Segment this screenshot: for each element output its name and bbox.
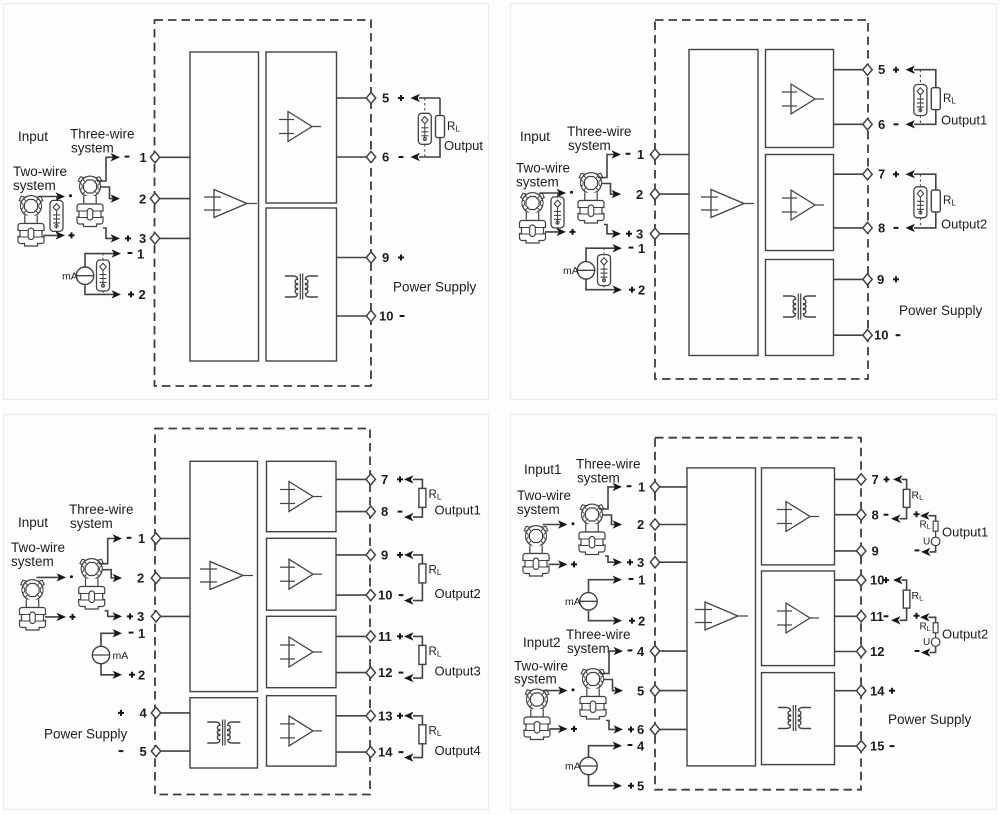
arrow 3w row1 Q3 bbox=[113, 534, 123, 542]
arrow 3w row3 Q3 bbox=[113, 612, 123, 620]
svg-text:Output1: Output1 bbox=[942, 525, 988, 540]
wire terminal3 Q4 bbox=[655, 561, 687, 563]
plus terminal 5 Q2 bbox=[893, 67, 899, 73]
arrow 3w row4 Q4b bbox=[614, 647, 624, 655]
svg-text:8: 8 bbox=[878, 220, 885, 235]
wire mA bottom Q2 bbox=[586, 279, 617, 290]
plus two-wire Q3 bbox=[70, 614, 76, 620]
small resistor RL2b Q4 bbox=[933, 623, 938, 633]
wire terminal3 to input block bbox=[155, 237, 190, 239]
wire mA bottom bbox=[85, 284, 116, 294]
plus mark U branch Q4 o1 bbox=[914, 511, 920, 517]
wire terminal2 Q4 bbox=[655, 524, 687, 526]
svg-text:9: 9 bbox=[877, 272, 884, 287]
svg-text:mA: mA bbox=[565, 761, 581, 773]
input amplifier block Q4 bbox=[687, 468, 756, 766]
two-wire transmitter Q4a bbox=[523, 526, 549, 576]
svg-text:system: system bbox=[71, 141, 114, 156]
arrow 3w row1 Q2 bbox=[612, 150, 622, 158]
load resistor RL2 Q3 bbox=[419, 564, 426, 583]
input amplifier block Q2 bbox=[689, 50, 758, 356]
wire terminal11 Q4 bbox=[835, 615, 862, 617]
terminal 1 Q4 bbox=[650, 481, 659, 492]
indicator out2 Q2 bbox=[914, 187, 927, 218]
two-wire transmitter Q4b bbox=[524, 689, 550, 739]
svg-text:4: 4 bbox=[140, 706, 148, 721]
terminal 4 Q4 bbox=[650, 646, 659, 657]
arrow 3w row2 Q3 bbox=[113, 574, 123, 582]
two-wire transmitter Q2 bbox=[520, 193, 546, 243]
wire load2 bottom Q2 bbox=[914, 212, 936, 228]
svg-text:RL: RL bbox=[429, 725, 442, 738]
svg-text:3: 3 bbox=[636, 227, 643, 242]
svg-text:4: 4 bbox=[637, 644, 645, 659]
two-wire transmitter Q3 bbox=[20, 580, 46, 630]
wire 2w plus Q4a bbox=[549, 563, 564, 565]
arrow out1 plus Q2 bbox=[906, 66, 916, 74]
power transformer block Q4 bbox=[762, 673, 835, 765]
op-amp main Q4 bbox=[695, 602, 748, 630]
svg-text:Output2: Output2 bbox=[942, 626, 988, 641]
load resistor RL3 Q3 bbox=[419, 645, 426, 664]
arrow out1 minus Q2 bbox=[906, 120, 916, 128]
svg-text:RL: RL bbox=[429, 646, 442, 659]
plus mark terminal 9 bbox=[398, 255, 404, 261]
arrow mA plus Q2 bbox=[613, 286, 623, 294]
three-wire transmitter TX2 bbox=[77, 176, 103, 226]
svg-text:RL: RL bbox=[429, 489, 442, 502]
U voltage meter Q4 o2 bbox=[931, 638, 940, 647]
svg-text:Two-wire: Two-wire bbox=[517, 488, 571, 503]
wire terminal9 Q2 bbox=[834, 278, 868, 280]
minus mA Q4b bbox=[628, 744, 633, 746]
wire mA top Q4a bbox=[589, 580, 618, 593]
transformer T1 Q4 bbox=[778, 705, 811, 731]
wire load4 bottom Q3 bbox=[413, 744, 422, 758]
wire big load bottom Q4 o1 bbox=[900, 507, 907, 518]
arrow mA minus Q4b bbox=[613, 742, 623, 750]
svg-text:U: U bbox=[923, 637, 930, 648]
power transformer block Q2 bbox=[766, 260, 834, 356]
arrow two-wire plus Q3 bbox=[57, 613, 67, 621]
svg-text:10: 10 bbox=[874, 328, 888, 343]
plus row6 Q4b bbox=[628, 726, 634, 732]
svg-text:2: 2 bbox=[637, 517, 644, 532]
terminal 9 Q4 bbox=[857, 545, 866, 556]
wire t2 Q3 bbox=[156, 577, 190, 579]
indicator output stem bottom bbox=[424, 144, 426, 157]
indicator stem top mA bbox=[102, 254, 104, 260]
arrow 3w row3 Q4a bbox=[613, 558, 623, 566]
wire mA bottom Q3 bbox=[101, 664, 117, 675]
wire mA bottom Q4b bbox=[589, 774, 618, 786]
indicator on two-wire loop bbox=[50, 200, 63, 231]
plus mA Q4a bbox=[629, 618, 635, 624]
output1 amplifier block bbox=[766, 50, 834, 148]
wire output+ to terminal5 bbox=[337, 97, 372, 99]
ind stem top Q2 bbox=[557, 193, 559, 197]
svg-text:system: system bbox=[568, 138, 611, 153]
terminal 5 Q2 bbox=[863, 64, 872, 75]
arrow out2 minus Q2 bbox=[906, 224, 916, 232]
svg-text:2: 2 bbox=[638, 282, 645, 297]
svg-text:1: 1 bbox=[638, 572, 645, 587]
wire t4 Q3 bbox=[156, 712, 190, 714]
indicator stem top bbox=[56, 197, 58, 201]
panel border Q2 bbox=[511, 4, 997, 400]
wire 3w row4 Q4b bbox=[600, 651, 619, 673]
output1 amplifier block Q4 bbox=[762, 468, 835, 565]
minus mark mA row bbox=[128, 252, 133, 254]
wire terminal6 Q2 bbox=[834, 123, 868, 125]
dashed isolator boundary box bbox=[155, 20, 372, 386]
ind out2 stem top bbox=[919, 174, 921, 187]
svg-text:1: 1 bbox=[138, 531, 145, 546]
output1 amplifier block Q3 bbox=[267, 461, 337, 531]
arrow mA plus Q4a bbox=[613, 617, 623, 625]
load resistor RL2a Q4 bbox=[903, 590, 910, 608]
op-amp output2 Q2 bbox=[782, 190, 824, 220]
wire terminal2 Q2 bbox=[655, 193, 689, 195]
three-wire transmitter Q3 bbox=[79, 559, 105, 609]
indicator stem bottom bbox=[56, 231, 58, 235]
wire terminal7 Q3 bbox=[336, 478, 371, 480]
load resistor RL bbox=[436, 116, 445, 138]
terminal 2 Q3 bbox=[151, 572, 160, 583]
op-amp out2 Q3 bbox=[280, 559, 322, 589]
wire load2 bottom Q3 bbox=[413, 583, 422, 601]
wire load2 top Q2 bbox=[914, 174, 936, 190]
minus mA Q3 bbox=[129, 632, 134, 634]
svg-text:mA: mA bbox=[563, 265, 579, 277]
wire three-wire to row1 bbox=[97, 157, 116, 181]
ind out1 stem bottom bbox=[919, 116, 921, 125]
wire to U meter Q4 o1 bbox=[935, 531, 937, 537]
minus mark terminal 6 bbox=[399, 156, 404, 158]
wire t3 Q3 bbox=[156, 615, 190, 617]
svg-text:12: 12 bbox=[870, 644, 884, 659]
arrow output minus bbox=[411, 153, 421, 161]
terminal 10 Q3 bbox=[366, 590, 375, 601]
svg-text:3: 3 bbox=[637, 555, 644, 570]
plus mark terminal 5 bbox=[398, 95, 404, 101]
terminal 12 Q3 bbox=[366, 667, 375, 678]
plus t9 Q3 bbox=[397, 552, 403, 558]
svg-text:RL: RL bbox=[429, 564, 442, 577]
svg-text:RL: RL bbox=[447, 121, 460, 134]
wire load bottom bbox=[419, 138, 440, 157]
wire 3w row5 Q4b bbox=[603, 680, 619, 691]
terminal 5 Q4 bbox=[650, 685, 659, 696]
op-amp output1 Q2 bbox=[782, 84, 824, 114]
minus mark U branch Q4 o1 bbox=[915, 549, 920, 551]
svg-text:7: 7 bbox=[872, 472, 879, 487]
plus mA Q4b bbox=[628, 783, 634, 789]
svg-text:mA: mA bbox=[62, 271, 78, 283]
wire terminal1 to input block bbox=[155, 156, 190, 158]
wire terminal13 Q3 bbox=[336, 715, 371, 717]
wire load3 Q3 bbox=[413, 636, 422, 645]
svg-text:6: 6 bbox=[382, 150, 389, 165]
arrow two-wire plus Q2 bbox=[557, 228, 567, 236]
wire t1 Q3 bbox=[156, 538, 190, 540]
arrow 3w row1 Q4a bbox=[613, 483, 623, 491]
minus row4 Q4b bbox=[628, 649, 633, 651]
svg-text:Output2: Output2 bbox=[435, 586, 481, 601]
mA source Q4a bbox=[580, 593, 597, 610]
terminal 1 Q2 bbox=[650, 149, 659, 160]
wire two-wire minus Q2 bbox=[540, 192, 563, 194]
svg-text:Three-wire: Three-wire bbox=[576, 457, 641, 472]
arrow U branch minus Q4 o2 bbox=[921, 648, 931, 656]
minus mark row1 bbox=[125, 156, 130, 158]
plus mark row3 bbox=[125, 235, 131, 241]
plus mA Q2 bbox=[629, 287, 635, 293]
svg-text:Power Supply: Power Supply bbox=[393, 280, 477, 295]
plus t13 Q3 bbox=[397, 713, 403, 719]
wire 3w row3 Q2 bbox=[604, 225, 617, 234]
minus t8 Q4 bbox=[884, 514, 889, 516]
svg-text:14: 14 bbox=[870, 683, 885, 698]
output4 amplifier block Q3 bbox=[267, 696, 337, 766]
svg-text:Three-wire: Three-wire bbox=[70, 127, 135, 142]
terminal 9 bbox=[366, 252, 375, 263]
terminal 2 Q4 bbox=[650, 519, 659, 530]
terminal 9 Q2 bbox=[863, 274, 872, 285]
three-wire transmitter Q4b bbox=[580, 669, 606, 719]
plus mark mA row bbox=[128, 291, 134, 297]
arrow 3w row6 Q4b bbox=[614, 725, 624, 733]
ind stem bottom Q2 bbox=[557, 228, 559, 232]
svg-text:1: 1 bbox=[137, 246, 144, 261]
svg-text:1: 1 bbox=[140, 150, 147, 165]
svg-text:Input: Input bbox=[18, 129, 48, 144]
wire load1 bottom Q2 bbox=[914, 110, 936, 125]
svg-text:Input: Input bbox=[18, 515, 48, 530]
wire terminal1 Q2 bbox=[655, 154, 689, 156]
plus t10 Q4 bbox=[883, 577, 889, 583]
wire two-wire minus bbox=[38, 196, 61, 198]
terminal 1 bbox=[150, 152, 159, 163]
svg-text:Three-wire: Three-wire bbox=[69, 502, 134, 517]
svg-text:3: 3 bbox=[137, 609, 144, 624]
svg-text:5: 5 bbox=[637, 778, 644, 793]
plus t14 Q4 bbox=[889, 688, 895, 694]
wire to U meter Q4 o2 bbox=[935, 633, 937, 638]
minus terminal 8 Q2 bbox=[894, 227, 899, 229]
arrow mA minus Q3 bbox=[113, 629, 123, 637]
wire terminal3 Q2 bbox=[655, 233, 689, 235]
minus t11 Q4 bbox=[884, 615, 889, 617]
wire mA top bbox=[85, 254, 116, 267]
wire terminal15 Q4 bbox=[835, 745, 862, 747]
minus terminal 6 Q2 bbox=[894, 123, 899, 125]
input amplifier block bbox=[190, 52, 259, 361]
wire U branch top Q4 o1 bbox=[929, 516, 936, 522]
load resistor RL4 Q3 bbox=[419, 725, 426, 744]
terminal 3 bbox=[150, 233, 159, 244]
wire terminal14 Q3 bbox=[336, 751, 371, 753]
arrow big load minus Q4 o1 bbox=[891, 515, 901, 523]
svg-text:Input1: Input1 bbox=[524, 462, 562, 477]
panel border Q3 bbox=[4, 415, 489, 810]
plus t7 Q3 bbox=[397, 476, 403, 482]
svg-text:4: 4 bbox=[637, 738, 645, 753]
minus t15 Q4 bbox=[890, 745, 895, 747]
wire mA top Q2 bbox=[586, 248, 617, 261]
mA source Q4b bbox=[580, 757, 597, 774]
transformer T1 Q2 bbox=[783, 294, 816, 320]
terminal 6 bbox=[366, 151, 375, 162]
terminal 7 Q4 bbox=[857, 474, 866, 485]
op-amp main Q3 bbox=[200, 562, 253, 590]
plus terminal 9 Q2 bbox=[893, 276, 899, 282]
wire power+ to terminal9 bbox=[337, 257, 372, 259]
op-amp out1 Q4 bbox=[777, 502, 819, 532]
minus mark U branch Q4 o2 bbox=[915, 650, 920, 652]
wire load1 bottom Q3 bbox=[413, 507, 422, 517]
wire terminal10 Q3 bbox=[336, 594, 371, 596]
plus 2w Q4b bbox=[571, 726, 577, 732]
wire terminal5 Q2 bbox=[834, 69, 868, 71]
svg-text:2: 2 bbox=[137, 571, 144, 586]
svg-text:RL: RL bbox=[920, 520, 931, 532]
wire load2 Q3 bbox=[413, 555, 422, 564]
dot minus two-wire Q2 bbox=[570, 191, 573, 194]
arrow mA minus Q2 bbox=[613, 244, 623, 252]
svg-text:Output4: Output4 bbox=[435, 743, 481, 758]
dot minus two-wire bbox=[69, 194, 72, 197]
svg-text:mA: mA bbox=[113, 650, 129, 662]
wire terminal8 Q3 bbox=[336, 511, 371, 513]
svg-text:5: 5 bbox=[637, 683, 644, 698]
wire terminal11 Q3 bbox=[336, 635, 371, 637]
minus t14 Q3 bbox=[399, 751, 404, 753]
wire load4 Q3 bbox=[413, 716, 422, 725]
arrow out2 plus Q2 bbox=[906, 170, 916, 178]
arrow two-wire minus Q3 bbox=[57, 573, 67, 581]
svg-text:6: 6 bbox=[637, 722, 644, 737]
svg-text:9: 9 bbox=[872, 544, 879, 559]
wire U branch bottom Q4 o1 bbox=[930, 546, 936, 552]
svg-text:5: 5 bbox=[878, 62, 885, 77]
svg-text:2: 2 bbox=[139, 191, 146, 206]
arrow U branch plus Q4 o2 bbox=[920, 613, 930, 621]
terminal 5 bbox=[366, 92, 375, 103]
arrow big load plus Q4 o1 bbox=[893, 475, 903, 483]
wire t5 Q3 bbox=[156, 750, 190, 752]
load resistor RL1 Q3 bbox=[419, 488, 426, 507]
svg-text:Power Supply: Power Supply bbox=[899, 303, 983, 318]
dot minus 2w Q4a bbox=[572, 522, 575, 525]
output2 amplifier block bbox=[766, 155, 834, 251]
wire terminal4 Q4 bbox=[655, 650, 687, 652]
indicator output stem top bbox=[424, 98, 426, 113]
output2 amplifier block Q3 bbox=[267, 538, 337, 610]
wire two-wire plus Q3 bbox=[45, 616, 62, 618]
arrow big load plus Q4 o2 bbox=[893, 576, 903, 584]
wire terminal9 Q3 bbox=[336, 554, 371, 556]
wire terminal12 Q3 bbox=[336, 672, 371, 674]
ind stem mA top Q2 bbox=[603, 248, 605, 254]
wire terminal9 Q4 bbox=[835, 550, 862, 552]
wire mA bottom Q4a bbox=[589, 610, 618, 621]
svg-text:Output: Output bbox=[444, 138, 483, 153]
terminal 11 Q3 bbox=[366, 631, 375, 642]
wire terminal1 Q4 bbox=[655, 486, 687, 488]
minus t12 Q3 bbox=[399, 672, 404, 674]
arrow load2 plus Q3 bbox=[404, 551, 414, 559]
wire 3w row6 Q4b bbox=[606, 721, 619, 730]
svg-text:system: system bbox=[514, 672, 557, 687]
plus mark two-wire Q2 bbox=[570, 229, 576, 235]
indicator two-wire Q2 bbox=[551, 197, 564, 228]
arrow mA plus Q3 bbox=[113, 671, 123, 679]
wire 3w row1 Q3 bbox=[99, 539, 118, 564]
terminal 8 Q4 bbox=[857, 509, 866, 520]
arrow 3w row2 Q2 bbox=[612, 190, 622, 198]
svg-text:6: 6 bbox=[878, 117, 885, 132]
svg-text:Two-wire: Two-wire bbox=[11, 540, 65, 555]
plus row3 Q4a bbox=[627, 559, 633, 565]
wire terminal12 Q4 bbox=[835, 651, 862, 653]
indicator out1 Q2 bbox=[914, 85, 927, 116]
svg-text:9: 9 bbox=[382, 250, 389, 265]
arrow two-wire minus bbox=[56, 192, 66, 200]
three-wire transmitter Q4a bbox=[579, 504, 605, 554]
terminal 10 Q2 bbox=[863, 330, 872, 341]
terminal 8 Q2 bbox=[863, 222, 872, 233]
wire 3w row1 Q2 bbox=[598, 155, 617, 178]
transformer T1 Q3 bbox=[207, 720, 240, 746]
arrow 3w row5 Q4b bbox=[614, 686, 624, 694]
arrow 3w row2 Q4a bbox=[613, 520, 623, 528]
mA source Q2 bbox=[577, 262, 594, 279]
two-wire transmitter TX1 bbox=[18, 196, 44, 246]
svg-text:7: 7 bbox=[878, 167, 885, 182]
terminal 3 Q4 bbox=[650, 557, 659, 568]
arrow load1 plus Q3 bbox=[404, 475, 414, 483]
wire two-wire plus Q2 bbox=[545, 231, 562, 233]
svg-text:7: 7 bbox=[381, 472, 388, 487]
plus mark two-wire bbox=[69, 232, 75, 238]
wire 2w minus Q4b bbox=[544, 690, 564, 692]
wire 3w row2 Q4a bbox=[602, 515, 618, 525]
svg-text:RL: RL bbox=[920, 621, 931, 633]
wire terminal5 Q4 bbox=[655, 690, 687, 692]
wire terminal14 Q4 bbox=[835, 690, 862, 692]
svg-text:Input2: Input2 bbox=[523, 635, 561, 650]
svg-text:1: 1 bbox=[638, 241, 645, 256]
mA source Q3 bbox=[92, 646, 109, 663]
arrow load3 plus Q3 bbox=[404, 632, 414, 640]
wire load top drop bbox=[439, 98, 441, 116]
arrow U branch plus Q4 o1 bbox=[920, 512, 930, 520]
wire terminal6 Q4 bbox=[655, 728, 687, 730]
svg-text:RL: RL bbox=[912, 590, 924, 603]
wire three-wire to row3 bbox=[103, 228, 116, 238]
load resistor RL2 Q2 bbox=[931, 190, 940, 212]
op-amp out4 Q3 bbox=[280, 716, 322, 746]
svg-text:system: system bbox=[70, 516, 113, 531]
svg-text:2: 2 bbox=[139, 287, 146, 302]
op-amp out2 Q4 bbox=[777, 603, 819, 633]
wire load1 Q3 bbox=[413, 479, 422, 488]
dashed isolator boundary box Q2 bbox=[655, 20, 868, 379]
svg-text:Output2: Output2 bbox=[941, 217, 987, 232]
terminal 6 Q2 bbox=[863, 119, 872, 130]
arrow load4 minus Q3 bbox=[404, 753, 414, 761]
